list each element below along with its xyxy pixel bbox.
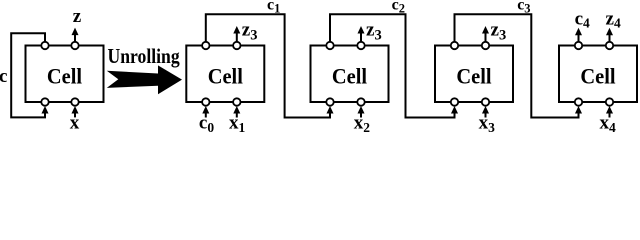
wire x4 input stub <box>609 113 611 117</box>
svg-text:Cell: Cell <box>332 64 367 89</box>
port circles U1 <box>202 42 240 106</box>
arrowhead z3 output U2 <box>358 26 365 34</box>
port circles U2 <box>326 42 364 106</box>
wire recurrent loop c (rolled cell) <box>11 33 45 117</box>
wire x2 input stub <box>360 113 362 117</box>
svg-text:Cell: Cell <box>208 64 243 89</box>
arrowhead c4 output <box>575 28 582 36</box>
arrowhead z output (rolled cell) <box>72 28 79 35</box>
wire x input (rolled cell) <box>74 113 76 117</box>
svg-text:c3: c3 <box>517 0 530 16</box>
wire z3 output U3 <box>485 33 487 42</box>
wire c1 rail from U1 top-left port to corner <box>206 14 330 117</box>
wire x1 input stub <box>236 113 238 117</box>
svg-text:c: c <box>0 66 7 87</box>
svg-text:z: z <box>73 6 82 27</box>
arrowhead x3 input <box>482 106 489 114</box>
wire c2 rail from U2 top-left port to corner <box>330 14 455 117</box>
cell box U1 <box>186 46 264 103</box>
wire x3 input stub <box>485 113 487 117</box>
arrowhead c3 into U4 bottom-left port <box>575 106 582 114</box>
port circles U4 <box>575 42 613 106</box>
wire z output (rolled cell) <box>74 35 76 42</box>
svg-text:c1: c1 <box>267 0 280 16</box>
port circles rolled cell <box>41 42 78 106</box>
arrowhead z3 output U1 <box>233 26 240 34</box>
arrowhead c2 into U3 bottom-left port <box>451 106 458 114</box>
svg-text:Cell: Cell <box>456 64 491 89</box>
arrowhead x4 input <box>606 106 613 114</box>
svg-text:Unrolling: Unrolling <box>108 46 180 69</box>
arrowhead x2 input <box>358 106 365 114</box>
svg-text:x: x <box>70 113 80 134</box>
wire z4 output U4 <box>609 35 611 42</box>
port circles U3 <box>451 42 489 106</box>
cell box (rolled Cell) <box>26 46 104 103</box>
arrowhead into rolled cell bottom-left port <box>42 106 49 114</box>
arrowhead x input (rolled cell) <box>72 106 79 114</box>
wire c3 rail from U3 top-left port to corner <box>455 14 579 117</box>
wire c0 input stub <box>205 113 207 117</box>
cell box U4 <box>559 46 637 103</box>
wire z3 output U1 <box>236 33 238 42</box>
svg-text:c2: c2 <box>392 0 405 16</box>
arrowhead x1 input <box>233 106 240 114</box>
cell box U2 <box>311 46 389 103</box>
svg-text:Cell: Cell <box>580 64 615 89</box>
arrowhead z4 output <box>606 28 613 36</box>
svg-text:Cell: Cell <box>47 64 82 89</box>
unrolling block arrow <box>107 65 182 94</box>
arrowhead c0 input <box>202 106 209 114</box>
cell box U3 <box>435 46 513 103</box>
arrowhead z3 output U3 <box>482 26 489 34</box>
wire c4 output U4 <box>578 35 580 42</box>
wire z3 output U2 <box>360 33 362 42</box>
arrowhead c1 into U2 bottom-left port <box>327 106 334 114</box>
